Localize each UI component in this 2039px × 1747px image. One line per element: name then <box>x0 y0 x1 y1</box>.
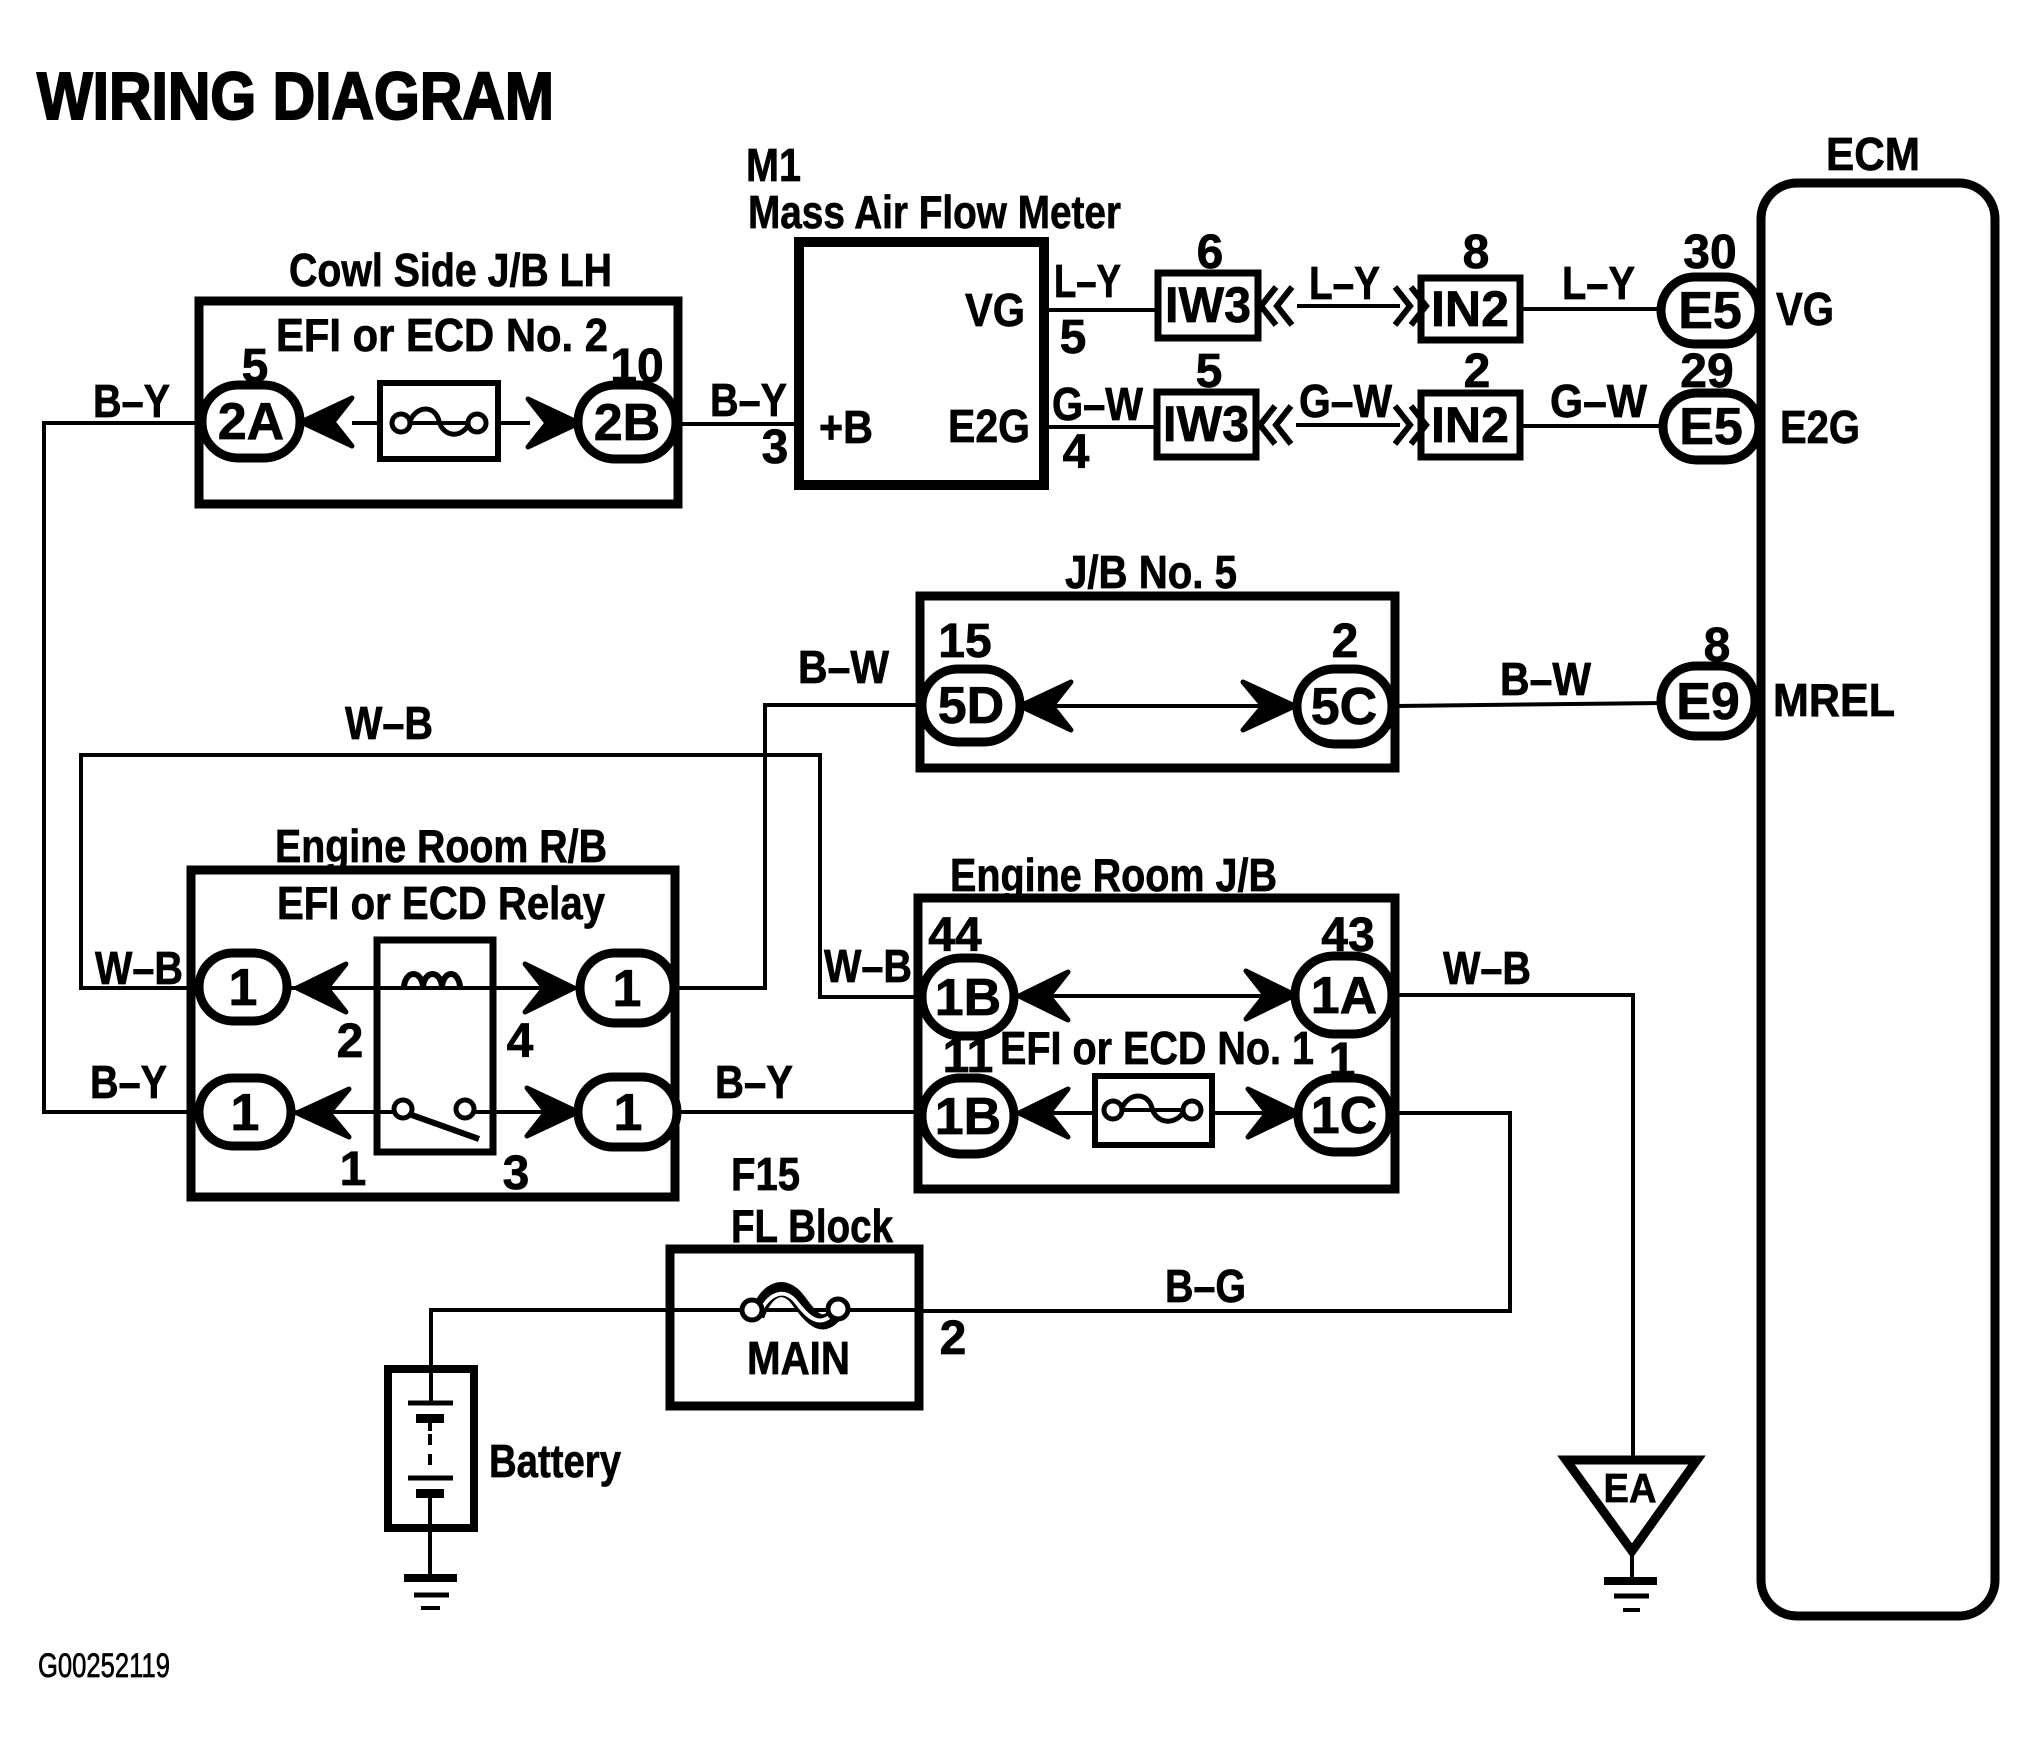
pin 3 (relay) <box>503 1147 530 1200</box>
connector 1 (relay pin 3) <box>578 1077 677 1147</box>
svg-text:1B: 1B <box>935 1088 1001 1146</box>
label FL Block <box>731 1200 893 1252</box>
svg-text:1: 1 <box>613 960 642 1018</box>
connector 5C <box>1297 669 1392 744</box>
pin 8 (IN2 upper) <box>1463 226 1490 279</box>
pin label E2G (ECM) <box>1780 401 1860 453</box>
connector 1 (relay pin 2) <box>199 953 287 1021</box>
svg-text:EFI or ECD No. 2: EFI or ECD No. 2 <box>276 309 608 361</box>
svg-text:Mass Air Flow Meter: Mass Air Flow Meter <box>748 186 1121 238</box>
title WIRING DIAGRAM <box>37 59 554 134</box>
ground EA triangle <box>1566 1460 1697 1551</box>
pin label VG (ECM) <box>1776 283 1834 335</box>
svg-text:M1: M1 <box>746 139 801 191</box>
relay inner box <box>377 940 493 1152</box>
ground symbol below battery <box>404 1578 457 1608</box>
svg-text:IW3: IW3 <box>1163 396 1249 452</box>
arrow into relay pin 3 <box>527 1088 578 1136</box>
label G00252119 <box>38 1647 170 1685</box>
wire inside Engine Room J/B (upper) <box>1014 994 1295 998</box>
svg-text:15: 15 <box>938 615 991 668</box>
svg-text:B–W: B–W <box>798 641 890 693</box>
wire relay coil row <box>287 986 580 990</box>
svg-text:5D: 5D <box>938 677 1004 735</box>
svg-text:B–Y: B–Y <box>93 375 170 427</box>
label B-W (left of 5D) <box>798 641 890 693</box>
wire relay switch row (right) <box>472 1110 578 1114</box>
label G-W (MAF side) <box>1052 378 1144 430</box>
label B-W (right of 5C) <box>1500 653 1592 705</box>
svg-text:B–Y: B–Y <box>715 1056 793 1108</box>
svg-text:E9: E9 <box>1676 673 1740 731</box>
label ECM <box>1826 128 1920 180</box>
svg-text:2: 2 <box>337 1015 364 1068</box>
svg-text:1: 1 <box>231 1084 260 1142</box>
component ECM <box>1761 183 1995 1616</box>
pin label E2G (MAF) <box>948 400 1030 452</box>
svg-text:B–Y: B–Y <box>710 374 787 426</box>
fuse EFI or ECD No. 1 <box>1095 1076 1212 1145</box>
svg-text:FL Block: FL Block <box>731 1200 893 1252</box>
pin 44 (1B upper) <box>928 909 982 962</box>
connector E5 (VG) <box>1661 277 1759 344</box>
svg-text:3: 3 <box>503 1147 530 1200</box>
svg-text:+B: +B <box>819 401 873 453</box>
wire through FL block <box>670 1308 919 1312</box>
label L-Y (ECM side) <box>1562 257 1635 309</box>
label G-W (ECM side) <box>1550 375 1648 427</box>
svg-text:3: 3 <box>762 421 789 474</box>
label Engine Room R/B <box>275 820 607 872</box>
label MAIN <box>747 1332 850 1384</box>
fusible link MAIN symbol <box>742 1290 848 1322</box>
label B-Y (upper left) <box>93 375 170 427</box>
wire G-W: MAF E2G to IW3 <box>1044 425 1157 429</box>
svg-text:IN2: IN2 <box>1431 397 1509 453</box>
label B-Y (lower left) <box>90 1056 167 1108</box>
svg-text:Battery: Battery <box>489 1435 621 1487</box>
svg-text:VG: VG <box>965 284 1025 336</box>
pin label +B <box>819 401 873 453</box>
svg-text:G–W: G–W <box>1550 375 1648 427</box>
junction block J/B No. 5 <box>920 596 1395 768</box>
connector 1C <box>1298 1078 1390 1152</box>
svg-text:4: 4 <box>507 1015 534 1068</box>
svg-text:1A: 1A <box>1311 967 1377 1025</box>
wire B-W: 5C to E9 <box>1392 703 1661 706</box>
svg-text:L–Y: L–Y <box>1054 255 1121 307</box>
label M1 <box>746 139 801 191</box>
wire B-Y: 2B to MAF +B <box>676 422 799 426</box>
connector IW3 (upper) <box>1158 273 1258 338</box>
label B-Y (right of 2B) <box>710 374 787 426</box>
svg-text:G–W: G–W <box>1052 378 1144 430</box>
svg-text:J/B No. 5: J/B No. 5 <box>1065 546 1237 598</box>
wire L-Y: IW3 to IN2 (upper) <box>1297 304 1400 308</box>
pin 4 (MAF E2G) <box>1063 426 1090 479</box>
svg-text:L–Y: L–Y <box>1562 257 1635 309</box>
chevrons at IW3 (upper) <box>1261 287 1292 325</box>
svg-text:MREL: MREL <box>1773 674 1895 726</box>
pin 15 (5D) <box>938 615 991 668</box>
pin 2 (5C) <box>1332 615 1359 668</box>
relay block Engine Room R/B <box>191 870 675 1197</box>
svg-text:IW3: IW3 <box>1165 277 1251 333</box>
wire G-W: IN2 to E5 (E2G) <box>1520 424 1663 428</box>
label Mass Air Flow Meter <box>748 186 1121 238</box>
svg-text:EFI or ECD No. 1: EFI or ECD No. 1 <box>1000 1022 1314 1074</box>
connector 1B (44) <box>922 958 1014 1036</box>
arrow into relay pin 4 <box>525 964 574 1012</box>
arrow into relay pin 1 <box>297 1089 349 1137</box>
wire B-G: 1C to FL block MAIN <box>919 1113 1510 1311</box>
junction block Cowl Side J/B LH <box>199 301 678 504</box>
connector 2B <box>578 385 676 459</box>
label EFI or ECD No. 1 <box>1000 1022 1314 1074</box>
pin 11 (1B lower) <box>943 1030 994 1083</box>
wire B-Y: connector 2A to relay pin 1 <box>44 423 202 1112</box>
wire L-Y: MAF VG to IW3 <box>1044 308 1158 312</box>
svg-text:B–Y: B–Y <box>90 1056 167 1108</box>
label Cowl Side J/B LH <box>289 244 612 296</box>
ground symbol below EA <box>1604 1551 1657 1610</box>
arrow into 2A <box>301 398 352 446</box>
pin 1 (1C) <box>1329 1034 1356 1087</box>
connector 1A <box>1295 956 1392 1034</box>
svg-text:8: 8 <box>1463 226 1490 279</box>
pin 5 (IW3 lower) <box>1196 345 1223 398</box>
svg-text:1C: 1C <box>1311 1087 1377 1145</box>
svg-text:WIRING DIAGRAM: WIRING DIAGRAM <box>37 59 554 134</box>
wire relay switch row (left) <box>291 1110 396 1114</box>
label L-Y (middle) <box>1309 257 1380 309</box>
pin 30 (E5 VG) <box>1683 226 1736 279</box>
label L-Y (MAF side) <box>1054 255 1121 307</box>
arrow into 1A <box>1246 971 1295 1019</box>
connector IN2 (lower) <box>1421 393 1520 457</box>
label B-Y (right of relay) <box>715 1056 793 1108</box>
arrow into 2B <box>528 399 579 447</box>
label G-W (middle) <box>1299 375 1393 427</box>
svg-text:E5: E5 <box>1679 398 1743 456</box>
svg-text:2: 2 <box>940 1312 967 1365</box>
connector 1 (relay pin 4) <box>580 953 674 1023</box>
wire W-B: relay pin 2 to Engine Room J/B 1B <box>81 755 922 997</box>
relay coil <box>404 974 460 988</box>
connector 1B (11) <box>922 1078 1014 1154</box>
wire G-W: IW3 to IN2 (lower) <box>1296 423 1400 427</box>
label F15 <box>731 1148 800 1200</box>
wire B-W: 5D to relay pin 4 <box>676 705 922 988</box>
pin 43 (1A) <box>1321 909 1374 962</box>
fusible link block F15 <box>670 1249 919 1406</box>
connector E9 <box>1661 666 1755 736</box>
label Battery <box>489 1435 621 1487</box>
svg-text:4: 4 <box>1063 426 1090 479</box>
pin 8 (E9) <box>1704 619 1731 672</box>
svg-text:2A: 2A <box>218 393 284 451</box>
battery plates <box>408 1403 453 1576</box>
svg-text:2: 2 <box>1332 615 1359 668</box>
svg-text:G00252119: G00252119 <box>38 1647 170 1685</box>
pin 2 (MAIN) <box>940 1312 967 1365</box>
svg-text:W–B: W–B <box>345 697 433 749</box>
svg-text:5: 5 <box>1060 311 1087 364</box>
label Engine Room J/B <box>950 849 1277 901</box>
label W-B (top wire) <box>345 697 433 749</box>
pin 1 (relay) <box>340 1143 367 1196</box>
svg-text:W–B: W–B <box>1443 942 1531 994</box>
chevrons at IW3 (lower) <box>1260 406 1291 444</box>
wire L-Y: IN2 to E5 (VG) <box>1520 307 1661 311</box>
pin 3 (MAF +B) <box>762 421 789 474</box>
wire fuse to arrows (cowl) <box>352 421 530 425</box>
svg-text:ECM: ECM <box>1826 128 1920 180</box>
relay switch <box>394 1100 479 1139</box>
wire inside Engine Room J/B (lower) <box>1014 1111 1298 1115</box>
wire battery positive to FL block <box>431 1310 670 1403</box>
arrow into 1B (44) <box>1019 972 1068 1020</box>
svg-text:1: 1 <box>229 959 258 1017</box>
wire B-Y: relay pin 3 to Engine Room J/B <box>677 1110 922 1114</box>
svg-text:E2G: E2G <box>948 400 1030 452</box>
chevrons at IN2 (upper) <box>1395 287 1426 325</box>
svg-text:E2G: E2G <box>1780 401 1860 453</box>
pin 10 (connector 2B) <box>610 340 663 393</box>
pin label VG (MAF) <box>965 284 1025 336</box>
svg-text:1: 1 <box>340 1143 367 1196</box>
svg-text:EFI or ECD Relay: EFI or ECD Relay <box>277 877 605 929</box>
pin 4 (relay) <box>507 1015 534 1068</box>
connector 2A <box>202 385 300 458</box>
label B-G <box>1165 1260 1246 1312</box>
svg-text:B–G: B–G <box>1165 1260 1246 1312</box>
pin 5 (connector 2A) <box>242 340 269 393</box>
fuse EFI or ECD No. 2 <box>380 383 498 459</box>
svg-text:F15: F15 <box>731 1148 800 1200</box>
label J/B No. 5 <box>1065 546 1237 598</box>
svg-text:MAIN: MAIN <box>747 1332 850 1384</box>
svg-text:W–B: W–B <box>95 942 183 994</box>
junction block Engine Room J/B <box>918 898 1395 1189</box>
connector E5 (E2G) <box>1663 393 1759 460</box>
svg-text:Cowl Side J/B LH: Cowl Side J/B LH <box>289 244 612 296</box>
wire inside J/B No. 5 <box>1020 704 1297 708</box>
svg-text:E5: E5 <box>1678 282 1742 340</box>
arrow into relay pin 2 <box>297 964 346 1012</box>
svg-text:L–Y: L–Y <box>1309 257 1380 309</box>
svg-text:B–W: B–W <box>1500 653 1592 705</box>
svg-text:Engine Room R/B: Engine Room R/B <box>275 820 607 872</box>
connector 1 (relay pin 1) <box>199 1078 291 1146</box>
label EFI or ECD Relay <box>277 877 605 929</box>
label W-B (left of relay) <box>95 942 183 994</box>
connector IW3 (lower) <box>1157 392 1256 457</box>
svg-text:1B: 1B <box>935 969 1001 1027</box>
svg-text:G–W: G–W <box>1299 375 1393 427</box>
battery box <box>388 1369 474 1528</box>
svg-text:30: 30 <box>1683 226 1736 279</box>
pin 6 (IW3 upper) <box>1197 226 1224 279</box>
pin 5 (MAF VG) <box>1060 311 1087 364</box>
chevrons at IN2 (lower) <box>1395 406 1426 444</box>
arrow into 1B (11) <box>1019 1089 1068 1137</box>
connector 5D <box>922 669 1020 742</box>
pin 29 (E5 E2G) <box>1680 345 1733 398</box>
svg-text:1: 1 <box>614 1084 643 1142</box>
label W-B (right of 1A) <box>1443 942 1531 994</box>
svg-text:Engine Room J/B: Engine Room J/B <box>950 849 1277 901</box>
wire W-B: 1A to EA ground <box>1392 995 1633 1460</box>
connector IN2 (upper) <box>1421 278 1520 340</box>
svg-text:2B: 2B <box>594 394 660 452</box>
pin 2 (IN2 lower) <box>1464 345 1491 398</box>
svg-text:IN2: IN2 <box>1431 281 1509 337</box>
pin label MREL (ECM) <box>1773 674 1895 726</box>
pin 2 (relay) <box>337 1015 364 1068</box>
arrow into 5D <box>1020 682 1071 730</box>
svg-text:VG: VG <box>1776 283 1834 335</box>
svg-text:5C: 5C <box>1311 678 1377 736</box>
svg-text:EA: EA <box>1604 1465 1657 1511</box>
label W-B (left of Engine Room J/B) <box>824 940 912 992</box>
arrow into 5C <box>1243 682 1295 730</box>
svg-text:W–B: W–B <box>824 940 912 992</box>
component M1 Mass Air Flow Meter <box>799 242 1044 485</box>
arrow into 1C <box>1248 1089 1298 1137</box>
label EFI or ECD No. 2 <box>276 309 608 361</box>
